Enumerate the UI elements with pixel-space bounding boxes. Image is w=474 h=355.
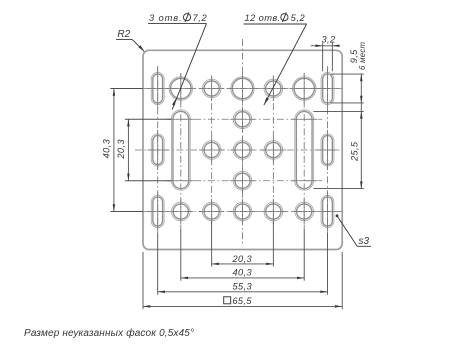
center line row 1 horizontal	[144, 88, 342, 90]
dimension 25,5 arrows	[360, 111, 363, 188]
edge slot 3.2x9.5 left column row 5	[151, 195, 164, 227]
svg-text:Размер неуказанных фасок 0,5х4: Размер неуказанных фасок 0,5х45°	[24, 327, 194, 339]
svg-text:5,2: 5,2	[291, 13, 306, 23]
extension line slot right edge top	[331, 43, 333, 72]
edge slot 3.2x9.5 right column row 5	[321, 195, 334, 227]
dimension 9,5 text	[349, 49, 359, 63]
dimension 20,3 text left	[116, 139, 126, 160]
center line row 5 horizontal	[144, 211, 342, 213]
leader 12 otv	[244, 24, 307, 105]
dimension 20,3 line vertical left	[127, 119, 129, 181]
dimension 6 mest text	[358, 41, 367, 69]
long slot 5.2x25.5 left	[171, 110, 190, 190]
hole D5.2 row4 col3	[233, 171, 252, 190]
center line column 3 vertical	[242, 39, 244, 244]
center line column 5 vertical	[303, 73, 305, 229]
dimension 65,5 square line bottom	[143, 305, 342, 308]
extension line plate left edge bottom	[142, 252, 144, 309]
extension line slot bottom right	[331, 102, 364, 104]
edge slot 3.2x9.5 right column row 1	[321, 72, 334, 104]
extension line long slot top	[313, 110, 363, 112]
svg-text:7,2: 7,2	[193, 13, 208, 23]
svg-text:65,5: 65,5	[232, 296, 252, 306]
label 3 otv text	[149, 12, 207, 23]
dimension 9,5 arrows	[360, 74, 363, 103]
extension line row5 left	[110, 211, 143, 213]
label 12 otv text	[245, 12, 306, 23]
dimension 40,3 text bottom	[233, 268, 253, 278]
svg-text:40,3: 40,3	[233, 268, 253, 278]
extension line left slot col bottom	[157, 233, 159, 295]
extension line plate right edge bottom	[341, 252, 343, 309]
center line column 4 vertical	[272, 76, 274, 225]
extension line col1 bottom	[180, 229, 182, 281]
long slot 5.2x25.5 right	[295, 110, 314, 190]
center line row 3 horizontal	[135, 149, 342, 151]
extension line slot top right	[331, 73, 364, 75]
dimension 40,3 text	[102, 138, 112, 158]
dimension 55,3 line bottom	[158, 291, 328, 294]
hole D7.2 row1 col5	[293, 77, 316, 100]
center line left slot column	[157, 66, 159, 233]
extension line col2 bottom	[211, 221, 213, 267]
extension line col5 bottom	[303, 229, 305, 281]
hole crosshair marks	[147, 68, 338, 231]
svg-text:20,3: 20,3	[116, 139, 126, 160]
edge slot 3.2x9.5 left column row 3	[151, 134, 164, 166]
hole D7.2 row1 col3	[231, 77, 254, 100]
svg-text:3 отв.: 3 отв.	[149, 13, 183, 23]
edge slot 3.2x9.5 right column row 3	[321, 134, 334, 166]
dimension 40,3 line vertical left	[113, 89, 116, 212]
svg-text:s3: s3	[359, 236, 370, 247]
center line right slot column	[327, 66, 329, 233]
leader s3	[336, 214, 371, 246]
leader R2	[116, 40, 145, 52]
label R2 text	[117, 29, 130, 40]
svg-text:6 мест: 6 мест	[358, 41, 367, 69]
hole D5.2 row1 col2	[202, 79, 221, 98]
dimension line vertical right	[360, 74, 362, 189]
extension line row4 left	[125, 180, 171, 182]
plate outline, square 65.5x65.5 R2	[143, 50, 342, 249]
hole D5.2 row5 col2	[202, 202, 221, 221]
dimension 55,3 text bottom	[233, 281, 253, 291]
center line row 4 horizontal	[167, 180, 323, 182]
extension line slot left edge top	[322, 43, 324, 72]
dimension 65,5 text with square symbol	[224, 296, 253, 306]
dimension 25,5 text	[349, 141, 359, 162]
center line row 2 horizontal	[167, 118, 323, 120]
extension line long slot bottom	[313, 188, 363, 190]
edge slot 3.2x9.5 left column row 1	[151, 72, 164, 104]
extension line row2 left	[125, 118, 171, 120]
leader 3 otv	[148, 24, 207, 110]
dimension 20,3 text bottom	[232, 254, 253, 264]
note chamfer size text	[24, 327, 194, 339]
dimension 3,2 line	[311, 45, 340, 48]
hole D5.2 row3 col2	[202, 141, 221, 160]
svg-text:R2: R2	[117, 29, 130, 40]
hole D5.2 row1 col4	[264, 79, 283, 98]
svg-text:40,3: 40,3	[102, 138, 112, 158]
extension line right slot col bottom	[327, 233, 329, 295]
svg-text:25,5: 25,5	[349, 141, 359, 162]
svg-text:20,3: 20,3	[232, 254, 253, 264]
hole D5.2 row5 col1	[172, 202, 191, 221]
svg-text:55,3: 55,3	[233, 281, 253, 291]
hole D5.2 row3 col3	[233, 141, 252, 160]
hole D7.2 row1 col1	[169, 77, 192, 100]
svg-text:12 отв.: 12 отв.	[245, 13, 281, 23]
hole D5.2 row5 col3	[233, 202, 252, 221]
svg-text:3,2: 3,2	[322, 35, 336, 45]
extension line col4 bottom	[272, 221, 274, 267]
extension line row1 left	[110, 88, 143, 90]
dimension 40,3 line bottom	[181, 277, 304, 280]
hole D5.2 row5 col4	[264, 202, 283, 221]
center line column 1 vertical	[180, 73, 182, 229]
hole D5.2 row3 col4	[264, 141, 283, 160]
label s3 text	[359, 236, 370, 247]
center line column 2 vertical	[211, 76, 213, 225]
hole D5.2 row5 col5	[295, 202, 314, 221]
dimension 3,2 text	[322, 35, 336, 45]
hole D5.2 row2 col3	[233, 110, 252, 129]
dimension 20,3 line bottom	[212, 263, 274, 266]
